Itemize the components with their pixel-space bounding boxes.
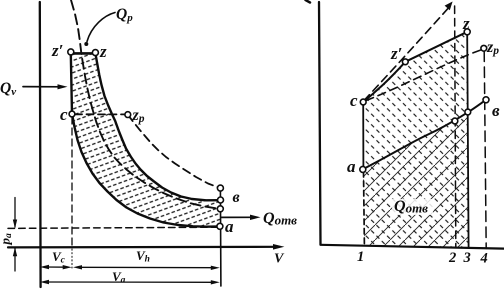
svg-text:Qотв: Qотв — [263, 210, 297, 228]
svg-text:в: в — [492, 101, 500, 120]
svg-text:z: z — [462, 14, 470, 33]
svg-text:в: в — [233, 189, 240, 206]
svg-text:z′: z′ — [51, 41, 63, 60]
svg-text:Vh: Vh — [136, 248, 150, 265]
svg-text:c: c — [350, 91, 358, 110]
svg-text:Va: Va — [112, 269, 126, 286]
svg-text:Qv: Qv — [0, 80, 16, 98]
svg-text:a: a — [225, 217, 234, 236]
svg-text:Vc: Vc — [52, 249, 66, 266]
svg-text:V: V — [274, 252, 285, 267]
svg-text:zp: zp — [132, 107, 145, 125]
svg-text:c: c — [60, 105, 68, 124]
svg-text:z′: z′ — [390, 44, 402, 63]
svg-text:1: 1 — [357, 249, 364, 265]
svg-text:Qp: Qp — [116, 6, 133, 24]
svg-text:z: z — [99, 42, 107, 61]
svg-text:2: 2 — [448, 250, 456, 266]
svg-text:Qотв: Qотв — [394, 198, 428, 216]
svg-text:a: a — [347, 157, 356, 176]
svg-text:3: 3 — [463, 250, 471, 266]
svg-text:pa: pa — [0, 233, 14, 246]
svg-text:4: 4 — [480, 251, 488, 267]
svg-text:zp: zp — [486, 39, 499, 57]
